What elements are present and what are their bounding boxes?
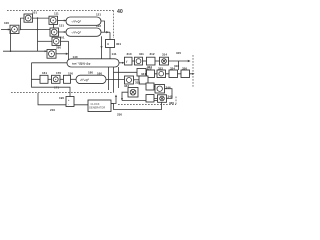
wire (60, 78, 64, 80)
svg-text:190: 190 (59, 96, 64, 100)
wire chain2 input vertical (32, 63, 41, 80)
wire Q down to 141 (101, 36, 103, 59)
svg-text:170: 170 (56, 71, 61, 75)
box 161 (40, 75, 48, 83)
wire row2 (155, 73, 194, 75)
mixer 100 (10, 25, 19, 33)
mixer 101 (24, 14, 33, 22)
row1 box 312 (147, 57, 156, 65)
wire arrow down-left (122, 92, 128, 100)
wire clock feed (38, 93, 88, 105)
svg-text:314: 314 (162, 52, 167, 56)
wire output with arrow (169, 60, 190, 62)
wires right cluster (154, 87, 172, 99)
wire E out (61, 40, 69, 42)
svg-text:324: 324 (170, 66, 175, 70)
junction dot (10, 50, 12, 52)
mixer 344 (155, 85, 165, 94)
svg-text:GENERATOR: GENERATOR (89, 106, 105, 110)
svg-text:280: 280 (56, 46, 61, 50)
wire branch down (178, 61, 180, 70)
wire 141 out arrow (119, 62, 124, 64)
svg-text:100: 100 (4, 21, 9, 25)
wire node C to D (21, 29, 50, 31)
row1 mixer 314 (160, 57, 169, 65)
svg-text:101: 101 (32, 10, 37, 14)
wire B to D (53, 24, 55, 28)
svg-text:230: 230 (117, 113, 122, 117)
wire (71, 78, 77, 80)
svg-text:121: 121 (96, 13, 101, 17)
wire S1 out (101, 21, 105, 32)
mixer 114 (47, 50, 56, 59)
row2 mixer 322 (157, 70, 166, 78)
box 341 (139, 76, 148, 84)
wire bottom (122, 100, 160, 102)
svg-text:341: 341 (141, 72, 146, 76)
svg-text:√I²+Q²: √I²+Q² (80, 78, 89, 82)
filter 141 (67, 59, 119, 67)
svg-text:tanˉ¹(Q/I)·Δφ: tanˉ¹(Q/I)·Δφ (72, 61, 91, 65)
wire S2 out (101, 31, 110, 33)
wire clock down route (111, 102, 162, 109)
svg-text:210: 210 (50, 108, 55, 112)
row2 box 320 (147, 70, 155, 78)
svg-text:301: 301 (116, 42, 121, 46)
svg-text:315: 315 (176, 51, 181, 55)
wire (155, 60, 160, 62)
svg-text:160: 160 (97, 71, 102, 75)
svg-text:-√I²+Q²: -√I²+Q² (71, 31, 81, 35)
svg-text:180: 180 (88, 70, 93, 74)
mixer 340 (125, 76, 134, 84)
filter 122 (66, 28, 101, 36)
filter 121 (66, 17, 101, 25)
svg-text:312: 312 (150, 52, 155, 56)
svg-text:ƒ: ƒ (126, 60, 128, 64)
svg-text:330: 330 (169, 101, 174, 105)
wire D to S2 (59, 31, 67, 33)
wire branch to E (38, 40, 53, 42)
svg-text:141: 141 (112, 52, 117, 56)
wire (143, 60, 147, 62)
wire split to A (21, 18, 25, 29)
row2 box 324 (169, 70, 178, 78)
svg-text:40: 40 (117, 9, 123, 15)
wire feed 321 (114, 71, 138, 73)
mixer 345 (158, 95, 167, 103)
svg-text:131: 131 (59, 24, 64, 28)
wire bottom-left return (32, 79, 71, 96)
wire (132, 60, 135, 62)
box 240 (146, 83, 154, 90)
wire junction vertical (37, 18, 39, 51)
dashed separator bottom-left (11, 92, 114, 94)
svg-text:140: 140 (73, 55, 78, 59)
wire clock out (111, 96, 116, 104)
row1 mixer 311 (135, 57, 143, 65)
wire merge vertical (69, 41, 71, 62)
wire down from 301 (109, 48, 111, 59)
row2 box 326 (181, 70, 190, 78)
wire B to S1 (58, 20, 67, 22)
box 162 (64, 75, 71, 83)
dashed border top of block 40 (7, 10, 114, 12)
svg-text:CLOCK: CLOCK (91, 102, 100, 106)
svg-text:311: 311 (139, 52, 144, 56)
dashed border bottom of 330 (118, 104, 176, 106)
row1 box 310 (125, 57, 133, 65)
svg-text:326: 326 (182, 66, 187, 70)
box 241 (146, 95, 154, 103)
wire (48, 78, 52, 80)
mixer 113 (52, 37, 61, 45)
wire input (1, 29, 12, 31)
wire A to B (33, 17, 50, 19)
svg-text:322: 322 (158, 66, 163, 70)
dashed right border (192, 55, 194, 88)
svg-text:343: 343 (124, 84, 129, 88)
wire branch down left (3, 30, 47, 52)
mixer 343 (128, 88, 138, 98)
wire F out with arrow (56, 53, 68, 55)
wire into S3 from left (32, 62, 68, 64)
svg-text:-: - (68, 102, 69, 106)
svg-text:150: 150 (68, 72, 73, 76)
clock generator 210 (88, 100, 111, 112)
wire down to 301 (109, 32, 111, 39)
mixer 112 (50, 28, 59, 36)
filter 180 (76, 75, 106, 83)
svg-text:320: 320 (147, 66, 152, 70)
svg-text:-√I²+Q²: -√I²+Q² (71, 20, 81, 24)
dashed border right of block 40 (113, 11, 115, 39)
wire S4 out (106, 79, 125, 81)
svg-text:111: 111 (54, 12, 59, 16)
box 190 (66, 97, 74, 107)
svg-text:310: 310 (127, 52, 132, 56)
dashed corner 330 (175, 97, 177, 105)
svg-text:122: 122 (96, 24, 101, 28)
wire (134, 79, 140, 81)
box 301 (106, 40, 115, 48)
svg-text:333: 333 (135, 81, 140, 85)
svg-text:161: 161 (42, 71, 47, 75)
row2 box 321 (137, 69, 146, 77)
mixer 170 (52, 75, 61, 83)
wire vertical buses (109, 67, 119, 93)
mixer 111 (49, 16, 58, 24)
